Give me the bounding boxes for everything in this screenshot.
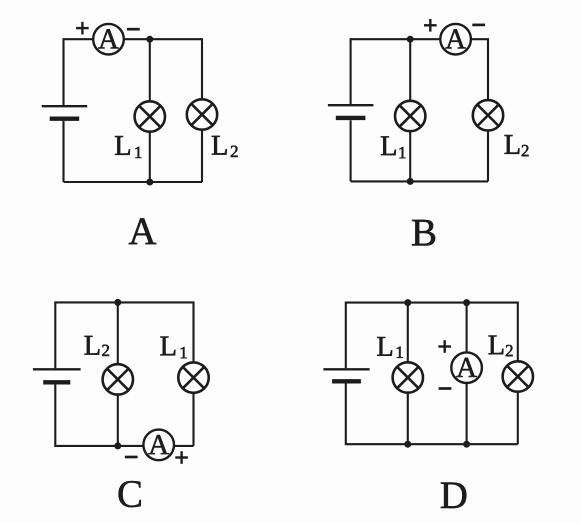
node: circuit B top junction xyxy=(407,36,414,43)
lamp L1 (circuit C) xyxy=(178,362,208,392)
label L1 (circuit C) xyxy=(160,337,186,359)
wire D: branch ammeter above xyxy=(466,303,468,353)
lamp L2 (circuit A) xyxy=(187,99,217,129)
wire D: branch L1 above lamp xyxy=(407,303,409,363)
minus sign (circuit B ammeter) xyxy=(472,24,485,27)
wire C: right side below lamp L1 xyxy=(192,393,194,446)
plus sign (circuit B ammeter) xyxy=(424,19,437,32)
wire B: left side below battery xyxy=(350,120,352,181)
node: circuit B bottom junction xyxy=(407,178,414,185)
plus sign (circuit D ammeter) xyxy=(438,340,451,353)
label L1 (circuit A) xyxy=(115,136,141,158)
wire B: bottom xyxy=(351,180,488,182)
node: circuit A bottom junction xyxy=(146,179,153,186)
wire A: top right (ammeter to top-right corner down to lamp L2) xyxy=(124,39,202,99)
battery (circuit A) xyxy=(42,106,87,119)
battery (circuit C) xyxy=(33,369,81,382)
label L1 (circuit D) xyxy=(377,337,403,358)
ammeter A (circuit B) xyxy=(440,24,471,55)
wire B: right side below lamp L2 xyxy=(487,131,489,182)
lamp L1 (circuit D) xyxy=(393,362,423,392)
label D (answer choice) xyxy=(441,483,466,509)
label L2 (circuit B) xyxy=(505,135,529,156)
wire C: left side below battery and bottom to ammeter xyxy=(55,383,143,446)
label L2 (circuit C) xyxy=(85,336,110,356)
battery (circuit D) xyxy=(323,369,369,381)
wire D: left top, top wire, right side down to lamp L2 xyxy=(346,303,518,369)
node: circuit D top junction left xyxy=(404,299,411,306)
wire C: left top, top wire, right side down to lamp L1 xyxy=(55,302,193,368)
minus sign (circuit C ammeter) xyxy=(125,456,138,459)
lamp L2 (circuit B) xyxy=(473,100,503,130)
ammeter A (circuit A) xyxy=(93,24,124,55)
wire A: bottom xyxy=(64,181,203,183)
label L2 (circuit A) xyxy=(212,136,238,157)
ammeter A (circuit D) xyxy=(451,352,482,383)
label L1 (circuit B) xyxy=(381,136,406,158)
lamp L1 (circuit A) xyxy=(135,101,165,131)
node: circuit A top junction xyxy=(146,36,153,43)
wire D: branch ammeter below xyxy=(466,383,468,444)
battery (circuit B) xyxy=(328,105,374,118)
wire B: middle branch below lamp L1 xyxy=(409,131,411,181)
lamp L2 (circuit C) xyxy=(103,364,133,394)
wire A: right side below lamp L2 xyxy=(201,130,203,182)
wire C: middle branch above lamp L2 xyxy=(117,302,119,364)
node: circuit D top junction right xyxy=(463,299,470,306)
label L2 (circuit D) xyxy=(489,336,513,357)
minus sign (circuit A ammeter) xyxy=(127,28,140,31)
lamp L1 (circuit B) xyxy=(395,101,425,131)
node: circuit D bottom junction right xyxy=(463,441,470,448)
wire D: branch L1 below lamp xyxy=(407,393,409,445)
wire B: middle branch above lamp L1 xyxy=(409,39,411,101)
plus sign (circuit A ammeter) xyxy=(76,22,89,35)
wire A: middle branch above lamp L1 xyxy=(149,39,151,101)
lamp L2 (circuit D) xyxy=(503,361,533,391)
plus sign (circuit C ammeter) xyxy=(175,451,188,464)
wire C: middle branch below lamp L2 xyxy=(117,395,119,446)
label A (answer choice) xyxy=(129,218,156,244)
wire A: left side top (battery to top-left corner to ammeter) xyxy=(64,39,94,105)
node: circuit C bottom junction xyxy=(114,442,121,449)
label B (answer choice) xyxy=(412,220,435,246)
wire C: bottom right segment from ammeter xyxy=(174,445,194,447)
node: circuit C top junction xyxy=(114,299,121,306)
wire B: ammeter to top-right corner down to lamp L2 xyxy=(471,39,488,100)
wire A: left side below battery xyxy=(62,121,64,182)
label C (answer choice) xyxy=(119,481,141,507)
minus sign (circuit D ammeter) xyxy=(439,387,452,390)
ammeter A (circuit C) xyxy=(143,430,174,461)
wire D: left side below battery and bottom wire xyxy=(346,383,518,444)
node: circuit D bottom junction left xyxy=(404,441,411,448)
wire B: left side top and top wire to ammeter xyxy=(351,39,441,105)
wire D: right side below lamp L2 xyxy=(517,392,519,445)
wire A: middle branch below lamp L1 xyxy=(149,132,151,182)
